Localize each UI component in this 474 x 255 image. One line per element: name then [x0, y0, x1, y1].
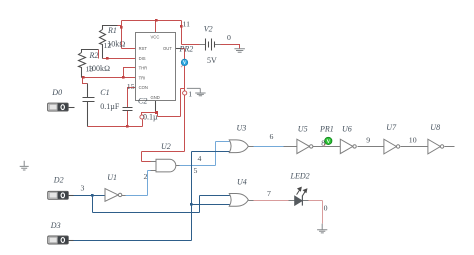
svg-text:8: 8 — [321, 139, 325, 148]
svg-text:CON: CON — [139, 85, 148, 90]
svg-text:U7: U7 — [386, 123, 397, 132]
svg-text:D0: D0 — [51, 88, 62, 97]
svg-text:LED2: LED2 — [290, 172, 310, 181]
svg-text:0.1µF: 0.1µF — [100, 102, 120, 111]
svg-text:OUT: OUT — [163, 46, 172, 51]
svg-text:DIS: DIS — [139, 56, 146, 61]
svg-text:V2: V2 — [204, 24, 213, 33]
svg-text:U2: U2 — [161, 142, 171, 151]
svg-text:R1: R1 — [107, 26, 117, 35]
svg-text:4: 4 — [198, 154, 202, 163]
svg-text:U6: U6 — [342, 125, 352, 134]
svg-text:U3: U3 — [237, 124, 247, 133]
svg-text:R2: R2 — [89, 51, 99, 60]
svg-text:10: 10 — [409, 135, 417, 144]
svg-text:TRI: TRI — [139, 75, 146, 80]
svg-text:V: V — [327, 139, 331, 145]
svg-text:12: 12 — [104, 41, 112, 50]
svg-text:D3: D3 — [50, 221, 61, 230]
svg-text:C2: C2 — [138, 97, 147, 106]
svg-text:D2: D2 — [53, 176, 64, 185]
svg-text:6: 6 — [270, 132, 274, 141]
svg-text:11: 11 — [183, 20, 191, 29]
svg-text:GND: GND — [151, 95, 160, 100]
svg-text:U4: U4 — [237, 177, 247, 186]
svg-text:U1: U1 — [107, 173, 117, 182]
svg-text:9: 9 — [366, 135, 370, 144]
svg-text:THR: THR — [139, 66, 148, 71]
svg-text:PR1: PR1 — [319, 125, 334, 134]
svg-text:7: 7 — [267, 189, 271, 198]
svg-text:15: 15 — [127, 82, 135, 91]
svg-text:5: 5 — [194, 166, 198, 175]
svg-text:2: 2 — [144, 172, 148, 181]
svg-text:3: 3 — [81, 184, 85, 193]
svg-text:5V: 5V — [207, 56, 217, 65]
svg-text:C1: C1 — [100, 88, 109, 97]
svg-text:0: 0 — [227, 33, 231, 42]
svg-text:13: 13 — [86, 64, 94, 73]
svg-text:VCC: VCC — [151, 35, 160, 40]
svg-text:V: V — [183, 61, 187, 66]
svg-text:PR2: PR2 — [179, 44, 194, 53]
svg-text:U5: U5 — [298, 125, 308, 134]
svg-text:1: 1 — [188, 90, 192, 99]
svg-text:0.1µ: 0.1µ — [143, 113, 158, 122]
svg-text:0: 0 — [324, 204, 328, 213]
svg-text:U8: U8 — [430, 123, 440, 132]
svg-text:RST: RST — [139, 46, 148, 51]
